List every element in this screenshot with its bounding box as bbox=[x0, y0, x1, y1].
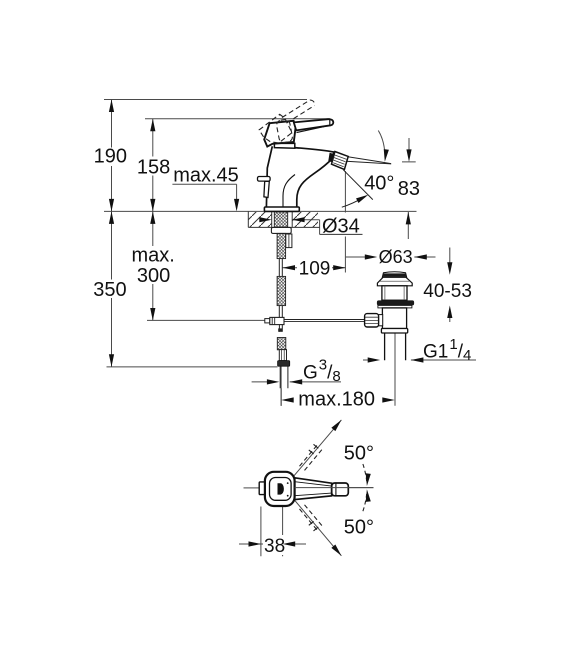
svg-text:max.: max. bbox=[132, 245, 175, 267]
svg-text:158: 158 bbox=[137, 156, 170, 178]
svg-text:G11/4: G11/4 bbox=[423, 336, 471, 364]
svg-text:350: 350 bbox=[93, 279, 126, 301]
svg-text:Ø63: Ø63 bbox=[379, 247, 413, 267]
svg-text:83: 83 bbox=[398, 178, 420, 200]
svg-text:max.180: max.180 bbox=[298, 389, 375, 411]
svg-text:max.45: max.45 bbox=[173, 164, 239, 186]
svg-text:50°: 50° bbox=[344, 443, 374, 465]
svg-text:G3/8: G3/8 bbox=[303, 357, 341, 386]
svg-text:40-53: 40-53 bbox=[423, 281, 472, 302]
svg-text:190: 190 bbox=[94, 146, 127, 168]
svg-text:50°: 50° bbox=[344, 516, 374, 538]
svg-text:109: 109 bbox=[299, 259, 331, 280]
svg-text:40°: 40° bbox=[364, 172, 394, 194]
svg-text:38: 38 bbox=[264, 536, 285, 557]
svg-text:Ø34: Ø34 bbox=[322, 216, 360, 238]
svg-text:300: 300 bbox=[137, 265, 170, 287]
